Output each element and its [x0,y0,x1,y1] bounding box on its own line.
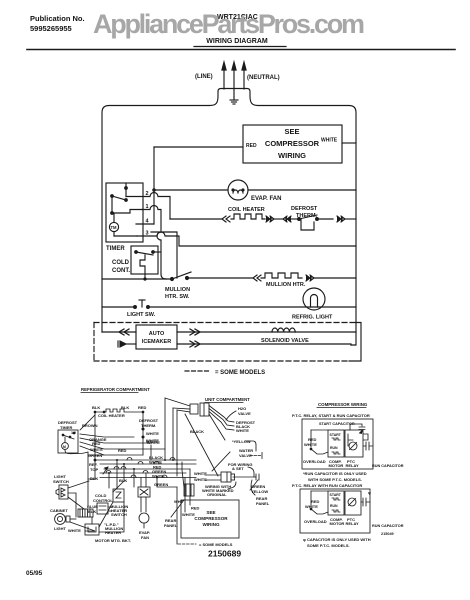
connector right of mullion htr [306,275,314,281]
wire cold control to pin vertical [144,252,161,280]
svg-text:CONT.: CONT. [112,268,130,274]
svg-text:AppliancePartsPros.com: AppliancePartsPros.com [93,9,365,39]
svg-text:REFRIG. LIGHT: REFRIG. LIGHT [292,315,333,321]
label rear panel left [164,500,184,528]
svg-text:3: 3 [146,231,149,237]
connector icemaker right bottom [190,341,200,347]
watermark AppliancePartsPros.com [93,9,365,39]
svg-text:RELAY: RELAY [346,463,360,468]
caption PTC relay with run capacitor [292,483,362,488]
svg-text:RED: RED [92,441,101,446]
label RED [246,143,257,149]
trunk junction dots [108,459,178,479]
wire plug to rear panel [233,474,259,490]
mullion heater element [261,273,302,278]
svg-text:VALVE: VALVE [238,411,251,416]
svg-text:1: 1 [146,204,149,210]
label COIL HEATER [228,207,265,213]
svg-text:RUN: RUN [330,446,338,450]
labels comp motor / ptc relay 1 [329,459,360,468]
svg-text:(LINE): (LINE) [195,74,213,80]
ptc relay box 1 [345,430,363,457]
svg-text:BLK: BLK [92,405,100,410]
timer pin 2 [126,191,170,219]
svg-text:WHITE: WHITE [152,474,165,479]
compressor terminal box [184,484,194,496]
connector right of defrost therm [337,216,345,222]
svg-text:PANEL: PANEL [256,501,270,506]
model number WRT21CIAC [217,14,258,21]
svg-text:START CAPACITOR: START CAPACITOR [319,422,355,426]
see compressor wiring box [243,125,342,163]
label TIMER [106,246,125,252]
label DEFROST THERM. [291,206,318,219]
vertical drop 117 [116,460,118,489]
refrigerator light bulb [303,288,325,310]
label EVAP. FAN [251,196,281,202]
vertical drop 157 green [154,478,177,488]
svg-text:φ CAPACITOR IS ONLY USED WITH: φ CAPACITOR IS ONLY USED WITH [303,537,371,542]
svg-text:WIRING: WIRING [278,151,306,160]
header rule [27,49,455,51]
svg-text:= SOME MODELS: = SOME MODELS [215,370,265,376]
wire orange row [80,434,134,442]
svg-text:BLACK: BLACK [190,429,204,434]
label SOLENOID VALVE [261,338,309,344]
svg-text:M: M [63,445,66,449]
label WHITE [321,138,338,144]
wire light row to right [148,306,356,308]
wire timer pin3 down to mullion row [151,232,177,278]
svg-text:WIRING: WIRING [202,522,220,527]
svg-text:WHITE: WHITE [146,439,159,444]
svg-text:COIL HEATER: COIL HEATER [98,413,125,418]
note run capacitor 1 [303,471,367,482]
svg-text:P.T.C. RELAY, START & RUN CAPA: P.T.C. RELAY, START & RUN CAPACITOR [292,413,370,418]
svg-text:P.T.C. RELAY WITH RUN CAPACITO: P.T.C. RELAY WITH RUN CAPACITOR [292,483,362,488]
ground symbol [230,97,238,104]
svg-text:MOTOR: MOTOR [330,521,345,526]
svg-text:SEE: SEE [284,127,299,136]
svg-text:TM: TM [111,225,118,230]
publication number text [30,14,85,33]
label BLK mid [119,478,127,483]
timer box [106,183,143,242]
wire defrost to right edge [345,218,356,220]
svg-text:WHITE: WHITE [304,442,317,447]
svg-text:MULLION: MULLION [165,287,190,293]
footer part number 2150689 [208,549,241,559]
svg-text:RED: RED [191,506,200,511]
svg-text:MULLION HTR.: MULLION HTR. [266,282,306,288]
trunk row black [95,455,196,460]
coil heater wire [92,405,147,460]
note capacitor 2 [303,537,371,548]
svg-text:RED: RED [246,143,257,149]
water valve arrow [239,448,262,459]
vertical drop 88 [87,452,89,505]
svg-text:START: START [330,433,342,437]
wire red vertical drop [153,147,155,224]
svg-text:BLK: BLK [90,476,98,481]
svg-text:WHITE: WHITE [194,477,207,482]
plug prong neutral [242,62,246,89]
mullion heater lower [85,522,123,535]
icemaker right top wire [177,331,356,333]
svg-text:φ: φ [368,490,371,495]
svg-text:PANEL: PANEL [164,523,178,528]
label GREEN YELLOW [251,484,268,494]
vertical drop 124 [113,464,124,492]
svg-text:2150689: 2150689 [208,549,241,559]
compressor plug [221,472,235,482]
svg-text:RUN CAPACITOR: RUN CAPACITOR [372,464,404,468]
svg-text:COLD: COLD [112,260,130,266]
title WIRING DIAGRAM [206,38,268,45]
icemaker lower left wire with plug [118,341,136,347]
labels DEFROST BLACK WHITE [236,420,256,433]
svg-text:GREEN: GREEN [88,453,102,458]
svg-text:OVERLOAD: OVERLOAD [304,519,327,524]
label WHITE top [147,440,160,445]
wire coil heater row [170,218,222,220]
evap fan motor [228,180,248,200]
wires cold control to mullion switch [108,507,112,511]
svg-text:TIMER: TIMER [106,246,125,252]
some models dashed box top [94,322,356,324]
wires connector to right [209,406,236,441]
svg-text:WITH SOME P.T.C. MODELS.: WITH SOME P.T.C. MODELS. [308,477,362,482]
svg-text:TOP: TOP [90,467,98,472]
svg-text:LIGHT SW.: LIGHT SW. [127,312,156,318]
label BROWN [82,423,98,428]
wires from light switch [68,481,89,517]
label REFRIG. LIGHT [292,315,333,321]
plug prong ground [232,62,236,97]
svg-text:EVAP. FAN: EVAP. FAN [251,196,281,202]
svg-text:DEFROST: DEFROST [291,206,318,212]
part number small [381,532,394,536]
title COMPRESSOR WIRING [318,402,368,407]
svg-text:& SET: & SET [232,466,244,471]
svg-text:RELAY: RELAY [346,521,360,526]
svg-text:= SOME MODELS: = SOME MODELS [199,542,233,547]
label START CAPACITOR [319,422,355,426]
cold control lower [87,493,113,514]
vertical drop 134 [133,469,135,487]
wire red to compressor box [154,146,243,148]
label WIRING WITH WHITE MARKED ORIGINAL [202,484,234,497]
main cabinet outline with plug hump [102,89,356,346]
vertical drop 95 [88,460,95,479]
svg-text:LIGHT: LIGHT [54,526,67,531]
wire white cabinet [68,522,95,533]
svg-text:SEE: SEE [206,510,215,515]
auto icemaker box [136,325,177,349]
svg-text:HEATER: HEATER [105,530,121,535]
white plug wires [194,452,230,482]
label REFRIGERATOR COMPARTMENT [81,387,150,392]
labels red white at compressor box [182,506,200,518]
wire white from compressor box [342,142,356,144]
svg-text:WHITE: WHITE [236,428,249,433]
svg-text:WHITE: WHITE [182,512,195,517]
svg-text:HTR. SW.: HTR. SW. [165,294,190,300]
svg-text:2: 2 [146,191,149,197]
wire white drop [150,445,152,460]
comp motor box 2 [328,491,344,515]
svg-text:AUTO: AUTO [149,331,165,337]
label RED small [118,448,127,453]
timer pin 1 [142,204,166,279]
compressor detail box 1 [302,419,373,469]
label REAR PANEL right [251,480,270,506]
coil heater element [231,214,265,219]
svg-text:REFRIGERATOR COMPARTMENT: REFRIGERATOR COMPARTMENT [81,387,150,392]
some models dashed box left [93,323,95,362]
svg-text:RUN CAPACITOR: RUN CAPACITOR [372,524,404,528]
run capacitor 2 [361,490,404,528]
wires box1 right [362,430,368,440]
svg-text:SOLENOID VALVE: SOLENOID VALVE [261,338,309,344]
svg-text:5995265955: 5995265955 [30,24,72,33]
run capacitor 1 [363,442,404,468]
icemaker right bottom wire [177,344,351,345]
wire evap fan row [153,189,356,191]
light switch lower [53,474,69,499]
label H2O VALVE [238,406,251,416]
see compressor wiring box lower [181,500,239,538]
legend some models lower [178,542,233,547]
ptc relay box 2 [345,491,361,515]
cold control box [131,246,158,274]
vertical drop 146 evap [145,473,147,487]
light switch [134,300,150,308]
wire white row [80,442,165,452]
svg-text:(NEUTRAL): (NEUTRAL) [247,75,280,81]
label MULLION HTR. [266,282,306,288]
vertical drop 141 evap [140,478,142,488]
svg-text:COMPRESSOR: COMPRESSOR [265,139,320,148]
defrost thermostat [291,215,333,230]
connector right of coil heater [266,216,274,222]
terminal block hatched [78,509,93,517]
footer date 05/95 [26,570,43,577]
svg-text:Publication No.: Publication No. [30,14,85,23]
defrost thermostat lower [139,411,159,455]
green row extension [88,454,104,456]
wires mullion heater connections [92,502,124,532]
timer pin 4 [136,219,154,225]
label WHITE upper right [146,439,159,444]
cabinet light [50,508,76,531]
overload 2 [304,508,328,524]
caption PTC relay start run capacitor [292,413,370,418]
wires to terminal box [174,462,190,512]
svg-text:RED: RED [138,405,147,410]
timer motor TM [109,214,137,236]
evap fan lower [138,487,150,540]
label FOR WIRING [228,462,252,471]
legend some models [185,370,265,376]
svg-text:OVERLOAD: OVERLOAD [303,459,326,464]
svg-text:215049: 215049 [381,532,394,536]
label MOTOR MTG BKT [95,538,131,543]
trunk row white2 [100,474,196,479]
timer contacts [111,183,142,214]
wire green row [80,446,143,458]
defrost timer [58,420,88,454]
wire mullion row left [102,278,170,280]
wire brown diagonal [80,415,95,430]
label LIGHT SW. [127,312,156,318]
svg-text:COIL HEATER: COIL HEATER [228,207,265,213]
timer pin 3 [137,231,356,247]
label COLD CONT. [112,260,130,274]
svg-text:WHITE: WHITE [90,447,103,452]
labels comp motor / ptc relay 2 [330,517,360,526]
comp motor box 1 [328,430,344,457]
mullion heater switch lower [110,489,128,517]
label LINE [195,74,213,80]
svg-text:FAN: FAN [141,535,149,540]
svg-text:*YELLOW: *YELLOW [232,439,251,444]
trunk row white [100,460,196,465]
svg-text:WHITE: WHITE [68,528,81,533]
svg-text:THERM.: THERM. [141,423,156,428]
some models right bracket [349,323,361,362]
label YELLOW water valve [232,439,251,444]
plug prong line [222,62,226,89]
connector icemaker left top [119,329,129,335]
vertical drop 109 [108,473,110,488]
svg-text:CONTROL: CONTROL [93,498,113,503]
trunk row red [104,465,190,470]
svg-text:SWITCH: SWITCH [111,512,127,517]
wire mullion to right edge [314,277,356,279]
svg-text:*RUN CAPACITOR IS ONLY USED: *RUN CAPACITOR IS ONLY USED [303,471,367,476]
wire plug to label [228,482,236,489]
wire red row [80,438,151,446]
label BLK left [90,476,98,481]
svg-text:THERM.: THERM. [296,213,318,219]
solenoid valve coil [272,328,295,332]
svg-text:COMPRESSOR: COMPRESSOR [194,516,228,521]
unit connector block [190,403,209,416]
start capacitor symbol [350,424,365,434]
label MULLION HTR. SW. [165,287,190,300]
mullion heater switch [171,272,254,281]
label UNIT COMPARTMENT [205,397,250,402]
wire to defrost therm [274,218,283,220]
svg-text:START: START [330,493,342,497]
wire light switch row [102,306,133,308]
svg-text:MOTOR: MOTOR [329,463,344,468]
svg-text:05/95: 05/95 [26,570,43,577]
connector left of mullion htr [253,275,261,281]
svg-text:BLK: BLK [88,509,96,514]
wire left edge to icemaker [102,331,136,333]
svg-text:SOME P.T.C. MODELS.: SOME P.T.C. MODELS. [307,543,350,548]
wires box1 left [304,430,328,447]
compressor detail box 2 [300,489,370,533]
svg-text:CABINET: CABINET [50,508,68,513]
svg-text:BLK: BLK [119,478,127,483]
trunk crossover bumps [106,458,175,478]
trunk row green [100,469,186,474]
compartment divider wires [165,398,190,476]
wires box2 left [305,491,328,509]
some models dashed box bottom [94,360,349,362]
svg-text:UNIT COMPARTMENT: UNIT COMPARTMENT [205,397,250,402]
svg-text:ORIGINAL: ORIGINAL [207,492,227,497]
svg-text:COMPRESSOR WIRING: COMPRESSOR WIRING [318,402,368,407]
connector left of defrost therm [283,216,291,222]
svg-text:MOTOR MTG. BKT.: MOTOR MTG. BKT. [95,538,131,543]
svg-text:WIRING DIAGRAM: WIRING DIAGRAM [206,38,268,45]
svg-text:SWITCH: SWITCH [53,479,69,484]
svg-text:TIMER: TIMER [60,425,73,430]
svg-text:BLK: BLK [121,405,129,410]
connector left of coil heater [222,216,230,222]
svg-text:WHITE: WHITE [321,138,338,144]
svg-text:1 2: 1 2 [71,431,76,435]
svg-text:ICEMAKER: ICEMAKER [142,339,171,345]
svg-text:RUN: RUN [330,504,338,508]
connector icemaker right top [190,329,200,335]
svg-text:GREEN: GREEN [154,482,168,487]
long vertical divider lower [176,487,178,544]
svg-text:WHITE: WHITE [146,431,159,436]
overload 1 [303,448,328,464]
title underline [194,46,286,48]
wire black diagonal [185,414,218,476]
svg-text:RED: RED [118,448,127,453]
label REF TOP [89,462,108,474]
label NEUTRAL [247,75,280,81]
